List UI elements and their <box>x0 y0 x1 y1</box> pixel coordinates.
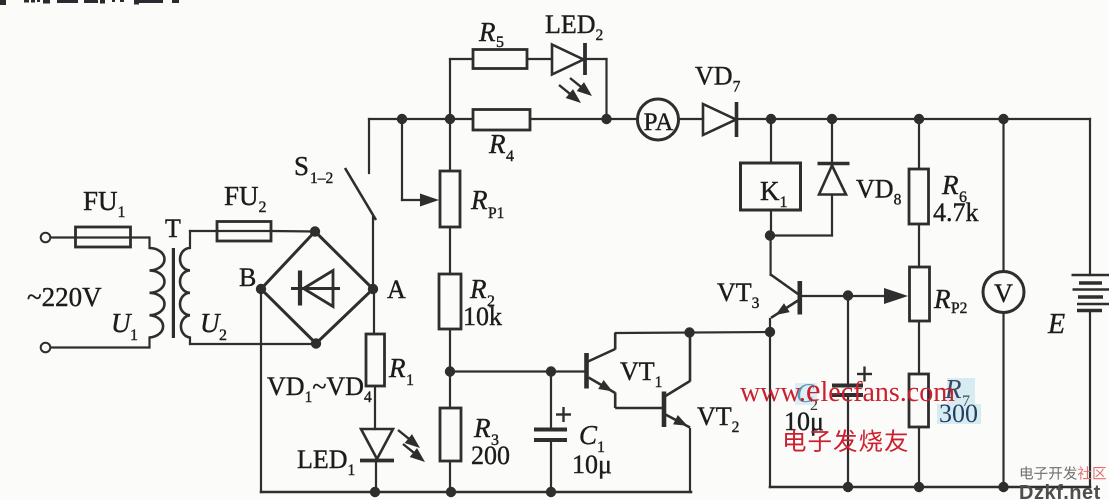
potentiometer RP2 <box>910 267 930 321</box>
wire: secondary top to FU2 <box>189 231 191 248</box>
LED2 emission arrows <box>559 78 582 95</box>
svg-text:LED2: LED2 <box>545 10 603 44</box>
svg-text:www.elecfans.com: www.elecfans.com <box>740 373 955 409</box>
resistor R1 <box>366 334 385 386</box>
wire: C1 bottom <box>550 441 552 492</box>
resistor R3 <box>440 408 461 461</box>
diode VD8 <box>818 164 850 195</box>
wire: VD8 vertical <box>831 119 833 165</box>
svg-text:R: R <box>478 17 496 47</box>
svg-text:4: 4 <box>506 148 514 165</box>
svg-text:R: R <box>488 129 506 159</box>
wire: LED1 to bottom rail <box>375 461 377 492</box>
node rail/RP1 wiper tap <box>397 114 407 124</box>
transistor VT1 <box>587 333 663 408</box>
wire: base feed to VT1 <box>450 370 584 372</box>
svg-text:VD1~VD4: VD1~VD4 <box>267 372 372 406</box>
svg-text:P2: P2 <box>951 300 967 317</box>
resistor R5 <box>473 50 527 69</box>
node C2 tap on VT3 base wire <box>843 290 853 300</box>
voltmeter V <box>983 272 1024 313</box>
transistor VT3 <box>771 275 800 318</box>
node R3 bottom rail <box>446 487 456 497</box>
node VT3 emitter rail junction <box>765 327 775 337</box>
node K1/VD8 bottom junction <box>765 230 775 240</box>
wire: right edge battery column <box>1089 119 1091 275</box>
wire: RP1 wiper feed <box>401 119 403 200</box>
svg-text:U: U <box>111 308 132 338</box>
node rail/K1 <box>766 114 776 124</box>
wire: V meter column <box>1002 119 1004 272</box>
wire: R6 column <box>918 119 920 169</box>
wire: switch stub from top rail <box>368 119 370 173</box>
node rail/LED2-R4 rejoin <box>601 114 611 124</box>
wire: K1 bottom to node <box>770 210 772 236</box>
svg-text:R: R <box>388 353 406 383</box>
svg-text:PA: PA <box>644 109 674 136</box>
wire: node to VT3 collector <box>769 236 771 276</box>
node VT2 collector on rail <box>684 327 694 337</box>
RP1 wiper arrow <box>420 194 439 207</box>
wire: VT3 emitter node down to bottom rail <box>769 319 771 487</box>
wire: R1 to LED1 <box>374 386 376 429</box>
svg-text:R: R <box>933 284 951 314</box>
node V meter bottom rail <box>998 482 1008 492</box>
node LED1 bottom rail <box>370 487 380 497</box>
wire: R5 to LED2 <box>527 58 552 60</box>
svg-text:S: S <box>294 151 309 181</box>
svg-text:2: 2 <box>219 327 227 344</box>
svg-text:5: 5 <box>496 34 504 51</box>
ammeter PA <box>638 99 679 140</box>
C2 plus sign <box>857 367 872 382</box>
wire: node B down to bottom-left rail <box>260 289 262 492</box>
highlight box for R7 <box>947 378 975 404</box>
wire: FU1 to transformer primary top <box>131 236 149 238</box>
node rail/R5-R4 branch <box>445 114 455 124</box>
RP2 wiper arrow <box>884 288 908 304</box>
svg-text:4.7k: 4.7k <box>933 198 979 227</box>
svg-text:R: R <box>941 170 959 200</box>
terminal bottom <box>41 343 51 353</box>
wire: input top from terminal to FU1 <box>51 236 75 238</box>
diode VD7 <box>703 102 737 137</box>
node B bridge left vertex <box>256 284 266 294</box>
LED1 <box>360 429 394 461</box>
wire: VT1/VT2 collector rail <box>616 332 770 333</box>
highlight box for C2 <box>795 383 817 405</box>
wire: bottom-right rail <box>770 486 1090 489</box>
node rail/VD8 <box>827 114 837 124</box>
C1 plus sign <box>556 407 571 422</box>
node C2 bottom rail <box>843 482 853 492</box>
svg-text:R: R <box>473 413 491 443</box>
node R7 bottom rail <box>914 482 924 492</box>
svg-text:P1: P1 <box>488 205 504 222</box>
svg-text:1–2: 1–2 <box>310 170 333 187</box>
svg-text:R: R <box>469 274 487 304</box>
wire: VT3 base to RP2 wiper <box>801 295 886 297</box>
watermark dianzifashaoyou <box>785 429 805 451</box>
capacitor C1 <box>534 430 567 441</box>
relay K1 <box>741 163 801 210</box>
svg-text:1: 1 <box>130 327 138 344</box>
fuse FU2 <box>217 222 271 242</box>
node bridge bottom vertex <box>311 338 321 348</box>
node C1 tap on base wire <box>546 366 556 376</box>
svg-text:A: A <box>387 275 406 304</box>
node rail/V meter <box>998 114 1008 124</box>
transformer T secondary winding <box>180 248 190 338</box>
watermark bottom-right community <box>1021 466 1033 479</box>
node A bridge right vertex <box>368 284 378 294</box>
wire: K1 top <box>770 119 772 163</box>
svg-text:200: 200 <box>471 441 510 470</box>
svg-text:B: B <box>239 263 256 292</box>
switch S1-2 blade <box>345 168 376 220</box>
fuse FU1 <box>76 227 131 247</box>
svg-text:E: E <box>1047 309 1065 340</box>
terminal top <box>41 233 51 243</box>
wire: top branch left vertical <box>449 59 451 119</box>
bridge rectifier VD1~VD4 diamond <box>261 232 373 344</box>
top-left clipped title fragments <box>0 0 179 5</box>
transformer T primary winding <box>150 248 165 338</box>
wire: secondary bottom to bridge bottom vertex <box>189 338 191 345</box>
svg-text:1: 1 <box>406 372 414 389</box>
capacitor C2 <box>832 386 863 396</box>
transformer core <box>172 248 175 338</box>
resistor R4 <box>473 110 530 131</box>
svg-text:R: R <box>470 185 488 215</box>
svg-text:Dzkf.net: Dzkf.net <box>1019 482 1101 500</box>
svg-text:U: U <box>200 308 221 338</box>
LED2 <box>552 43 585 75</box>
wire: FU2 to bridge top vertex <box>271 230 315 233</box>
wire: C1 top <box>550 372 552 429</box>
node R2/R3/VT1 base junction <box>445 366 455 376</box>
svg-text:T: T <box>165 214 181 243</box>
svg-text:10k: 10k <box>463 302 502 331</box>
wire: C2 vertical <box>847 296 849 385</box>
node rail/R6 <box>914 114 924 124</box>
wire: LED2 to right vertical down to rail <box>586 58 607 60</box>
node C1 bottom rail <box>546 487 556 497</box>
svg-text:C: C <box>579 420 598 450</box>
wire: VT2 emitter down <box>689 429 691 492</box>
wire: input bottom from terminal to primary bottom <box>51 346 149 348</box>
bridge inner diode <box>291 271 340 307</box>
battery E <box>1072 275 1109 311</box>
resistor R6 <box>909 169 929 224</box>
resistor R7 <box>909 374 929 427</box>
wire: node A down to R1 <box>373 289 375 334</box>
LED1 emission arrows <box>398 430 415 454</box>
wire: bottom-left rail <box>261 491 691 494</box>
potentiometer RP1 <box>440 171 460 227</box>
node bridge top vertex <box>310 226 320 236</box>
wire: node A up to switch blade <box>372 217 374 289</box>
wire: main top rail segments <box>369 118 473 120</box>
svg-text:~220V: ~220V <box>27 282 102 312</box>
transistor VT2 <box>664 333 690 428</box>
wire: RP1 column <box>449 119 451 171</box>
svg-text:V: V <box>994 279 1013 308</box>
svg-text:LED1: LED1 <box>297 445 355 479</box>
resistor R2 <box>439 274 461 329</box>
svg-text:10μ: 10μ <box>572 450 612 479</box>
